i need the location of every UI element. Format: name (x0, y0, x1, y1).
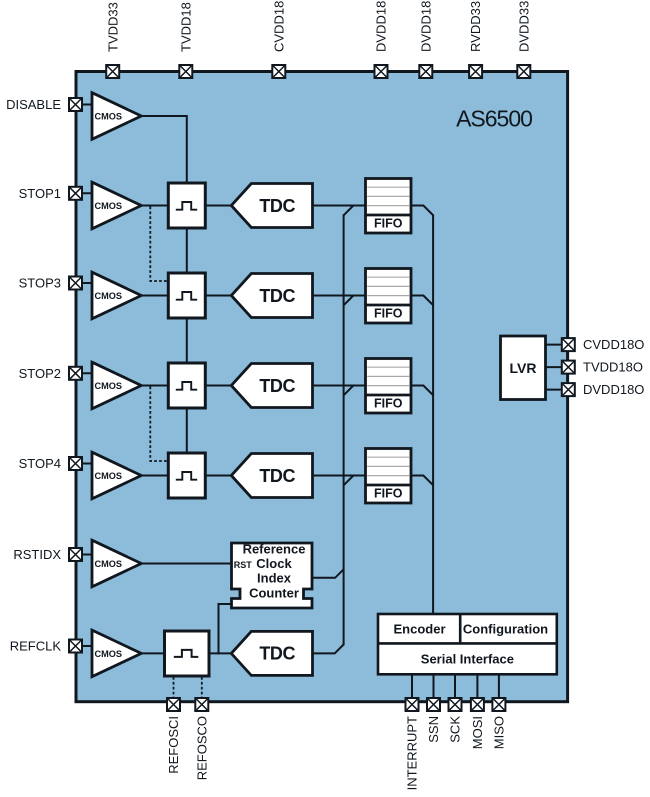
svg-text:RST: RST (234, 560, 253, 570)
svg-text:TVDD18O: TVDD18O (583, 360, 643, 375)
svg-text:INTERRUPT: INTERRUPT (405, 716, 420, 790)
svg-text:DVDD18: DVDD18 (374, 1, 389, 52)
svg-text:CVDD18: CVDD18 (271, 1, 286, 52)
svg-text:SSN: SSN (426, 716, 441, 743)
svg-text:DVDD33: DVDD33 (516, 1, 531, 52)
svg-text:SCK: SCK (448, 716, 463, 743)
svg-text:AS6500: AS6500 (456, 106, 532, 132)
svg-text:STOP4: STOP4 (19, 456, 61, 471)
svg-text:STOP1: STOP1 (19, 186, 61, 201)
svg-text:MOSI: MOSI (470, 716, 485, 749)
svg-text:REFCLK: REFCLK (10, 639, 62, 654)
svg-text:Configuration: Configuration (463, 621, 548, 636)
svg-text:Encoder: Encoder (393, 621, 445, 636)
svg-text:TVDD33: TVDD33 (105, 2, 120, 52)
svg-text:CVDD18O: CVDD18O (583, 337, 644, 352)
svg-text:REFOSCI: REFOSCI (166, 716, 181, 774)
svg-text:Serial Interface: Serial Interface (421, 652, 514, 667)
svg-text:RSTIDX: RSTIDX (13, 547, 61, 562)
svg-text:Index: Index (257, 571, 292, 586)
svg-text:STOP3: STOP3 (19, 276, 61, 291)
svg-text:DVDD18O: DVDD18O (583, 382, 644, 397)
svg-text:Counter: Counter (249, 585, 299, 600)
svg-text:TVDD18: TVDD18 (178, 2, 193, 52)
svg-text:MISO: MISO (492, 716, 507, 749)
svg-text:DISABLE: DISABLE (6, 97, 61, 112)
svg-text:STOP2: STOP2 (19, 366, 61, 381)
svg-text:RVDD33: RVDD33 (468, 1, 483, 52)
svg-text:REFOSCO: REFOSCO (194, 716, 209, 780)
svg-text:LVR: LVR (510, 360, 537, 376)
svg-text:Clock: Clock (256, 556, 292, 571)
svg-text:Reference: Reference (243, 541, 306, 556)
svg-text:DVDD18: DVDD18 (418, 1, 433, 52)
